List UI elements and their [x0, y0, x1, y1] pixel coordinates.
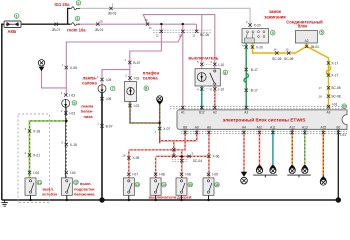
ring lug A12 [289, 165, 296, 175]
wire: pink branch to ring terminal (left) [42, 71, 67, 88]
wire: ignition lock yellow output to SC-06 and JB-01 [253, 43, 329, 110]
luggage lamp (lampa bagazhnika) [62, 99, 70, 107]
svg-text:A8: A8 [195, 125, 199, 129]
connector I-05 bottom [100, 97, 103, 100]
svg-text:JB-01: JB-01 [95, 28, 104, 32]
wire: pink split to cabin lamp [102, 70, 130, 85]
svg-text:X-17: X-17 [331, 61, 338, 65]
svg-text:салона: салона [143, 75, 158, 80]
svg-text:13: 13 [135, 183, 139, 187]
wire: red-white leg to S4 switch [155, 156, 157, 178]
wire: yellow-teal ECU A13 to lug [304, 129, 306, 165]
ground bracket under lugs A12 A13 [287, 175, 311, 177]
connectors ECU top pins A1 B12 A2 [181, 106, 184, 109]
svg-text:SC-06: SC-06 [272, 57, 282, 61]
svg-text:IG1 20a: IG1 20a [55, 2, 71, 7]
svg-text:электронный блок системы ETWIS: электронный блок системы ETWIS [223, 117, 307, 124]
connector JB-07 [55, 23, 58, 26]
circled number 11 S1 [37, 180, 42, 185]
connector JB-03 (gray) [109, 7, 112, 10]
connectors X-17 pair on yellow [327, 61, 330, 64]
circled number 15 S5 [188, 182, 193, 187]
svg-text:I-02: I-02 [134, 104, 140, 108]
svg-text:A10: A10 [257, 125, 263, 129]
circled number 1 battery [14, 14, 19, 19]
ring lug A10 [256, 165, 263, 175]
connector X-20 top [248, 23, 251, 26]
SC-06 pink splice dashed row [153, 30, 212, 32]
svg-text:I-02: I-02 [134, 76, 140, 80]
circled number 10 ECU [342, 104, 347, 109]
connectors SC-08 17 18 [327, 86, 330, 89]
wire: pink stub dot to SC-06 row (x161) down to lamp branch [130, 24, 162, 81]
svg-text:замок: замок [269, 9, 282, 14]
junction point 2 on bus [336, 197, 341, 202]
connectors I-10 switch top [200, 63, 203, 66]
wire: red-white ECU A6 to S6 switch [208, 129, 210, 178]
svg-text:12: 12 [74, 181, 78, 185]
connector I-07 [127, 173, 130, 176]
svg-text:A1: A1 [181, 111, 185, 115]
svg-text:05: 05 [100, 19, 104, 23]
connector X-21 [28, 153, 31, 156]
ground symbol (bottom-left) [1, 200, 8, 206]
connectors X-20 bottom pair [245, 45, 248, 48]
svg-text:B6: B6 [336, 125, 340, 129]
SC-04 splice dashed row [172, 160, 189, 162]
svg-text:SC-06: SC-06 [200, 33, 210, 37]
svg-text:11: 11 [156, 33, 159, 37]
wire: red-white ECU A10 to lug [259, 129, 261, 165]
ignition lock box [242, 29, 269, 43]
svg-text:I-05: I-05 [106, 97, 112, 101]
svg-text:15: 15 [285, 48, 289, 52]
wire: riser to fuse IG1 [68, 8, 70, 24]
svg-text:I-01: I-01 [340, 133, 346, 137]
wire: red-white network h2 with B8 leg [129, 129, 185, 150]
ECU box ETWIS [177, 110, 347, 129]
ring lug A13 [301, 165, 308, 175]
svg-text:A3: A3 [244, 111, 248, 115]
svg-text:I-03: I-03 [69, 93, 75, 97]
svg-text:багаж-: багаж- [81, 108, 94, 113]
wire: pink jog up and feed to switch (upper pink) [143, 15, 215, 69]
svg-text:I-08: I-08 [159, 173, 165, 177]
svg-text:выключатели дверей: выключатели дверей [149, 195, 192, 200]
wire: plafond to X-07 (green-red dashed) [130, 102, 160, 144]
svg-text:B8: B8 [183, 125, 187, 129]
circled number 3 fuse room [75, 16, 80, 21]
svg-text:I-09: I-09 [212, 173, 218, 177]
vyklyuchatel switch box (center) [195, 69, 220, 86]
wire: red-yellow ECU A15 to lug [322, 129, 324, 176]
svg-text:12: 12 [178, 33, 182, 37]
svg-text:11: 11 [38, 181, 42, 185]
wire: pink branch to switch left pin [201, 15, 203, 69]
wire: gray from fuse IG1 to ignition lock X-20 [78, 8, 250, 28]
svg-text:14: 14 [274, 48, 278, 52]
circled number 4 ignition lock [270, 31, 275, 36]
wire: luggage lamp chain black dashed (I-03 to S2) [65, 108, 67, 178]
svg-text:A9: A9 [327, 111, 331, 115]
connector I-04 (S1) [28, 171, 31, 174]
wire: battery negative to ground bus (left edge) [2, 24, 4, 200]
switch S4 door [150, 178, 161, 195]
circled number 13 S3 [135, 182, 140, 187]
wire: teal ECU A11 to lug [272, 129, 274, 165]
wire: yellow-green horizontal + S1 chain [30, 121, 67, 178]
connector I-09 [207, 173, 210, 176]
svg-text:ника: ника [84, 114, 94, 119]
svg-text:10: 10 [145, 18, 149, 22]
connector X-05 (luggage lamp feed) [65, 66, 68, 69]
connectors SC-06 row 11 12 12 [160, 30, 163, 33]
connector I-04 (S2) [65, 171, 68, 174]
svg-text:B-07: B-07 [106, 124, 113, 128]
connectors ECU bottom pins [183, 131, 186, 134]
fuse room 10a [70, 23, 80, 26]
connector X-07 [158, 127, 161, 130]
wire: red-white network h1 (X-07 to A8 leg) [160, 129, 197, 140]
connector ECU A3 [245, 106, 248, 109]
junction block (Soedinitelny blok) [295, 31, 317, 43]
svg-text:B-07: B-07 [133, 61, 140, 65]
circled number 8 plafond [144, 86, 149, 91]
svg-text:I-03: I-03 [69, 111, 75, 115]
wire: battery positive to fuses (black) [21, 23, 70, 25]
svg-text:SC-08: SC-08 [331, 86, 341, 90]
cabin lamp (lampa salona) [98, 85, 106, 93]
svg-text:6: 6 [224, 71, 226, 75]
svg-text:салона: салона [82, 81, 97, 86]
connector I-03 top [64, 93, 67, 96]
flex loop green wire B-17 [244, 74, 249, 83]
connector X-18 [28, 129, 31, 132]
flex loop yellow wire X-17 [326, 66, 331, 74]
svg-text:8: 8 [145, 87, 147, 91]
wire: pink horizontal y42 with diagonal to SC-06 row [66, 33, 183, 95]
ring lug A15 [320, 176, 327, 186]
svg-text:A2: A2 [305, 39, 309, 43]
svg-text:X-15: X-15 [70, 143, 77, 147]
ECU bottom connector dashed row [181, 131, 347, 133]
wire: red-white ECU A4 to arrow terminal [243, 129, 245, 172]
switch S6 door [203, 178, 214, 195]
ring terminal with arrow (pink feed) [38, 60, 44, 72]
wire: teal from switch to ECU B12 [201, 86, 203, 110]
svg-text:7: 7 [112, 87, 114, 91]
svg-text:10: 10 [343, 105, 347, 109]
connectors SC-06 yellow 14 15 [275, 51, 278, 54]
connector X-06 (A6 leg) [207, 155, 210, 158]
wire: pink stub dot to SC-06 row (x183) down to ECU A1 [182, 24, 184, 110]
ring lug A11 [269, 165, 276, 175]
wire: yellow stub JB block A2 to JB-01 connector [306, 43, 308, 48]
wire: red from switch to ECU A2 [214, 86, 216, 110]
svg-text:B-17: B-17 [251, 89, 258, 93]
svg-text:X-20: X-20 [256, 46, 263, 50]
wire: ignition lock green output to ECU A3 [245, 43, 247, 110]
svg-text:15: 15 [189, 183, 193, 187]
svg-text:I-10: I-10 [218, 87, 224, 91]
wire: yellow-red ECU A12 to lug [291, 129, 293, 165]
connector JB-01 yellow [305, 45, 308, 48]
svg-text:A12: A12 [289, 125, 295, 129]
connector X-15 [65, 143, 68, 146]
connector I-02 bottom [128, 104, 131, 107]
svg-text:A11: A11 [270, 125, 276, 129]
connector I-06 [180, 173, 183, 176]
svg-text:зажигания: зажигания [264, 15, 286, 20]
svg-text:X-17: X-17 [331, 74, 338, 78]
svg-text:2: 2 [78, 1, 80, 5]
circled number 14 S4 [162, 182, 167, 187]
svg-text:SC-06: SC-06 [284, 57, 294, 61]
svg-text:12: 12 [192, 33, 196, 37]
ground bracket under lugs A10 A11 [253, 175, 277, 177]
svg-text:X-18: X-18 [33, 129, 40, 133]
connector B-07 pink [128, 61, 131, 64]
connectors I-10 switch bottom [200, 87, 203, 90]
svg-text:выкл.: выкл. [80, 181, 92, 186]
svg-text:I-04: I-04 [70, 171, 76, 175]
arrow terminal on A4 wire [241, 172, 247, 177]
connector JB-01 (pink) [96, 22, 99, 25]
plafond box with lamp [125, 82, 137, 102]
svg-text:A6: A6 [207, 125, 211, 129]
wire: red-white network T-drop and h3 [156, 150, 209, 157]
svg-text:SC-08: SC-08 [331, 95, 341, 99]
wire: ring terminal above X-07 down to junction [159, 104, 161, 123]
wire: red-white X-07 leg joining h1 [160, 138, 174, 156]
switch S2 luggage light [61, 178, 72, 195]
svg-text:11: 11 [149, 26, 152, 30]
connector I-03 bottom [64, 111, 67, 114]
svg-text:17: 17 [319, 86, 323, 90]
svg-text:A4: A4 [242, 125, 246, 129]
connector JB pass-through 10/11 [146, 22, 149, 25]
svg-text:JB-01: JB-01 [310, 45, 319, 49]
svg-text:room 10a: room 10a [67, 28, 86, 33]
svg-text:3: 3 [77, 17, 79, 21]
ring terminal above X-07 (plafond net) [156, 95, 163, 104]
svg-text:I-05: I-05 [106, 78, 112, 82]
svg-text:JB-03: JB-03 [108, 11, 117, 15]
ring lug A4 [241, 177, 248, 184]
svg-text:1: 1 [16, 14, 18, 18]
svg-text:I-07: I-07 [132, 173, 138, 177]
connector X-05 (S3 leg) [127, 156, 130, 159]
connector I-08 [154, 173, 157, 176]
wire: cabin lamp to ground bus (black, via B-07) [101, 93, 103, 201]
svg-text:JB-07: JB-07 [52, 28, 61, 32]
connector I-01 / ECU A9 [327, 105, 330, 108]
wire: black ECU B6 to junction 2 [337, 129, 339, 200]
svg-text:X-20: X-20 [254, 23, 261, 27]
svg-text:подсветки: подсветки [74, 186, 95, 191]
svg-text:SC-04: SC-04 [193, 159, 203, 163]
svg-text:X-06: X-06 [212, 155, 219, 159]
connectors B-17 pair on green [245, 68, 248, 71]
junction point 1 on bus [99, 197, 104, 202]
battery AKB [4, 21, 21, 28]
connectors SC-04 pair [172, 148, 175, 151]
svg-text:АКБ: АКБ [8, 29, 17, 34]
svg-text:ВЫКЛЮЧАТЕЛЬ: ВЫКЛЮЧАТЕЛЬ [189, 57, 219, 61]
svg-text:I-04: I-04 [33, 171, 39, 175]
svg-text:B12: B12 [199, 111, 205, 115]
svg-text:X-05: X-05 [132, 156, 139, 160]
circled number 7 cabin lamp [110, 86, 115, 91]
ECU top connector dashed row [170, 107, 347, 109]
wire: S-box stubs to ground bus [31, 195, 209, 200]
dashed link I-10 top pair [204, 63, 213, 65]
svg-text:багажника: багажника [74, 192, 95, 197]
svg-text:A13: A13 [302, 125, 308, 129]
circled number 12 S2 [74, 180, 79, 185]
svg-text:A15: A15 [320, 125, 326, 129]
svg-text:5: 5 [321, 31, 323, 35]
svg-text:X-21: X-21 [33, 153, 40, 157]
svg-text:хетчбэк: хетчбэк [42, 192, 57, 197]
connector I-05 top [100, 78, 103, 81]
svg-text:I-06: I-06 [185, 173, 191, 177]
connector B-07 on black ground wire [100, 124, 103, 127]
svg-text:14: 14 [162, 183, 166, 187]
svg-text:I-01: I-01 [332, 103, 338, 107]
svg-text:A2: A2 [213, 111, 217, 115]
switch S3 door [123, 178, 134, 195]
svg-text:18: 18 [319, 95, 323, 99]
wire: red-white leg to S3 switch [128, 150, 130, 178]
svg-text:4: 4 [272, 31, 274, 35]
switch S1 hatchback [25, 178, 36, 195]
svg-text:B-17: B-17 [251, 68, 258, 72]
switch S5 door [176, 178, 187, 195]
circled number 9 luggage lamp [72, 101, 77, 106]
circled number 16 S6 [215, 182, 220, 187]
svg-text:16: 16 [215, 183, 219, 187]
svg-text:X-05: X-05 [70, 66, 77, 70]
wire: pink from fuse room to JB-01 and junction row [78, 24, 197, 31]
circled number 6 switch [223, 70, 228, 75]
svg-text:блок: блок [298, 24, 309, 29]
svg-text:X-07: X-07 [163, 127, 170, 131]
circled number 5 junction block [319, 30, 324, 35]
wire: red-white leg to S5 switch [181, 157, 183, 178]
wire: ground bus (bottom) [2, 199, 339, 201]
fuse IG1 20a [70, 7, 80, 10]
circled number 2 fuse IG1 [76, 1, 81, 6]
connector I-02 top [128, 76, 131, 79]
svg-text:9: 9 [73, 101, 75, 105]
dashed boundary rectangle (hatch area) [18, 114, 49, 203]
svg-text:16: 16 [122, 153, 126, 157]
svg-text:I-10: I-10 [218, 63, 224, 67]
